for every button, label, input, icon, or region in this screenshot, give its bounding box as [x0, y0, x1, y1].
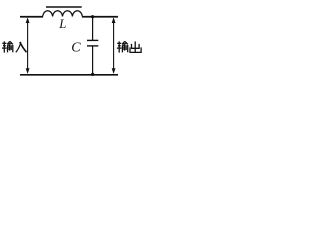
- inductor core bar: [46, 6, 82, 8]
- wire input voltage arrow line: [27, 20, 29, 72]
- svg-text:C: C: [71, 41, 81, 56]
- output arrowhead down: [112, 68, 116, 74]
- capacitor C bottom plate: [87, 45, 98, 47]
- label shu (output) char 1 of 输出: [117, 41, 128, 52]
- wire capacitor top lead: [92, 17, 94, 41]
- capacitor C top plate: [87, 39, 98, 41]
- wire capacitor bottom lead: [92, 46, 94, 75]
- wire top-left segment: [20, 16, 43, 18]
- svg-text:L: L: [58, 17, 66, 31]
- label shu (input) char 1 of 输入: [2, 41, 13, 52]
- input arrowhead down: [26, 68, 30, 74]
- label ru (input) char 2 of 输入: [16, 42, 27, 53]
- label chu (output) char 2 of 输出: [130, 41, 141, 52]
- input arrowhead up: [26, 17, 30, 23]
- wire output voltage arrow line: [113, 20, 115, 72]
- output arrowhead up: [112, 17, 116, 23]
- node top junction dot: [91, 15, 94, 18]
- inductor L coil: [43, 11, 83, 17]
- node bottom junction dot: [91, 73, 94, 76]
- wire top-right segment: [82, 16, 118, 18]
- wire bottom rail: [20, 74, 118, 76]
